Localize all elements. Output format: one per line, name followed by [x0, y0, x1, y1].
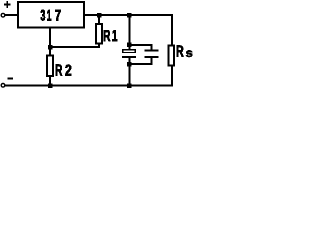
plus polarity label: [4, 1, 10, 8]
wire: R2 bottom stub: [49, 76, 51, 86]
wire: R1 bottom stub: [98, 44, 100, 49]
capacitor C1 negative plate: [122, 56, 136, 58]
node: ADJ junction: [48, 45, 53, 50]
wire: capacitor branch vertical from top rail: [128, 16, 130, 46]
wire: C1 top stub: [128, 46, 130, 50]
resistor R2: [47, 56, 53, 76]
capacitor C1 positive plate (electrolytic, hollow): [123, 50, 136, 53]
wire: capacitor bottom connection: [129, 63, 153, 65]
output terminal - (open circle): [1, 84, 5, 88]
wire: C2 top stub: [151, 45, 153, 50]
wire: ADJ pin vertical from regulator: [49, 28, 51, 49]
wire: ADJ horizontal line to R1: [49, 46, 100, 48]
label R2: [56, 65, 71, 76]
resistor Rs: [168, 46, 174, 66]
wire: capacitor branch to ground rail: [128, 65, 130, 85]
wire: right vertical from top rail to Rs: [171, 14, 173, 46]
label 317: [41, 10, 61, 21]
regulator U1 "317" body: [18, 2, 84, 28]
node: capacitor branch at ground rail: [127, 83, 132, 88]
capacitor C2 top plate: [144, 50, 158, 52]
input terminal + (open circle): [1, 13, 5, 17]
wire: capacitor top connection to C2: [129, 44, 153, 46]
resistor R1: [96, 24, 102, 44]
minus polarity label: [7, 78, 13, 80]
wire: C1 bottom stub: [128, 58, 130, 64]
capacitor C2 bottom plate: [144, 56, 158, 58]
label Rs: [177, 46, 193, 57]
node: junction to capacitors: [127, 13, 132, 18]
node: capacitor bottom junction: [127, 62, 132, 67]
node: capacitor top junction: [127, 43, 132, 48]
wire: input terminal to regulator: [5, 14, 18, 16]
wire: ground rail (bottom): [5, 85, 173, 87]
wire: stub from top rail to R1: [98, 16, 100, 24]
wire: C2 bottom stub: [151, 58, 153, 64]
wire: stub ADJ node to R2: [49, 48, 51, 56]
wire: regulator output rail (top): [84, 14, 173, 16]
node: output junction to R1: [97, 13, 102, 18]
wire: Rs bottom stub to ground rail: [171, 65, 173, 86]
label R1: [104, 30, 117, 41]
node: R2 to ground rail: [48, 83, 53, 88]
